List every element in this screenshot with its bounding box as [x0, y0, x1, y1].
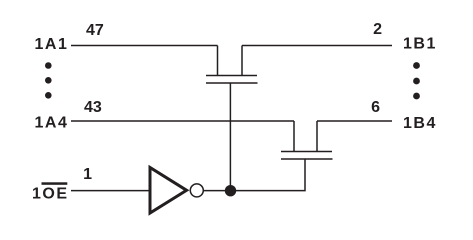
ellipsis dots left: [45, 62, 52, 98]
overline on OE: [42, 182, 68, 185]
svg-text:1A1: 1A1: [35, 36, 69, 53]
inverter output bubble: [190, 184, 203, 197]
wire 1OE to inverter input: [71, 190, 150, 192]
svg-text:1B1: 1B1: [403, 36, 437, 53]
svg-text:1OE: 1OE: [32, 186, 69, 203]
wire 1A4 to Q2 drain: [71, 120, 294, 122]
wire inverter output to junction: [204, 190, 227, 192]
svg-text:6: 6: [371, 99, 380, 116]
wire Q2 source to 1B4: [317, 120, 392, 122]
svg-text:43: 43: [84, 99, 102, 116]
wire Q2 gate lead: [231, 159, 306, 191]
transistor Q1 (pass FET row 1): [206, 46, 258, 84]
svg-text:47: 47: [86, 22, 104, 39]
wire 1A1 to Q1 drain: [71, 45, 218, 47]
svg-text:2: 2: [373, 21, 382, 38]
svg-text:1: 1: [83, 166, 92, 183]
inverter U1 triangle: [150, 168, 187, 214]
ellipsis dots right: [413, 62, 420, 99]
wire Q1 source to 1B1: [242, 45, 392, 47]
transistor Q2 (pass FET row 2): [281, 121, 333, 159]
svg-text:1B4: 1B4: [403, 115, 437, 132]
svg-text:1A4: 1A4: [35, 115, 69, 132]
wire Q1 gate lead: [229, 83, 231, 190]
junction dot: [225, 185, 236, 196]
